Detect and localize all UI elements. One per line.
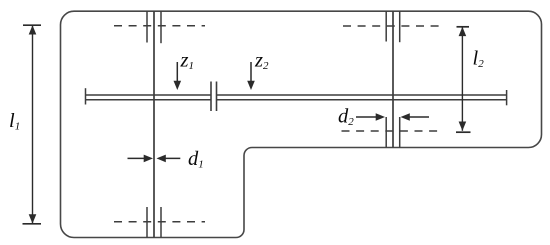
shaft 1 bottom bearing right line bbox=[160, 207, 162, 238]
shaft 2 bottom bearing right line bbox=[399, 117, 401, 148]
horizontal gear shaft upper line right segment bbox=[217, 94, 507, 96]
shaft 2 bottom dashed centreline bbox=[342, 130, 443, 132]
dimension l2 line bbox=[461, 27, 463, 131]
dimension l1 top arrowhead bbox=[29, 25, 37, 34]
shaft 2 centre line bbox=[392, 11, 394, 148]
shaft 1 top dashed centreline bbox=[114, 25, 205, 27]
coupling right plate bbox=[216, 82, 218, 112]
shaft 1 centre line bbox=[153, 11, 155, 238]
shaft 1 top bearing right line bbox=[160, 11, 162, 43]
dimension l2 top tick bbox=[457, 26, 470, 28]
horizontal gear shaft upper line left segment bbox=[86, 94, 212, 96]
d1 right arrow bbox=[164, 157, 181, 159]
dimension l1 bottom arrowhead bbox=[29, 214, 37, 223]
shaft 1 top bearing left line bbox=[146, 11, 148, 43]
z1 leader arrow bbox=[176, 62, 178, 83]
svg-text:z2: z2 bbox=[254, 50, 269, 73]
shaft 1 bottom bearing left line bbox=[146, 207, 148, 238]
svg-text:l1: l1 bbox=[9, 110, 20, 133]
shaft 2 top bearing left line bbox=[385, 11, 387, 42]
horizontal gear shaft lower line left segment bbox=[86, 99, 212, 101]
coupling left plate bbox=[210, 82, 212, 112]
dimension l1 top tick bbox=[23, 24, 41, 26]
shaft 2 bottom bearing left line bbox=[385, 117, 387, 148]
dimension l1 bottom tick bbox=[23, 223, 42, 225]
dimension l1 line bbox=[32, 25, 34, 223]
svg-text:l2: l2 bbox=[473, 48, 485, 71]
shaft 2 top dashed centreline bbox=[343, 25, 444, 27]
right shaft end cap bbox=[506, 90, 508, 105]
svg-text:d2: d2 bbox=[338, 105, 354, 128]
svg-text:z1: z1 bbox=[180, 50, 194, 73]
shaft 2 top bearing right line bbox=[399, 11, 401, 42]
dimension l2 top arrowhead bbox=[459, 27, 467, 36]
d2 left arrow bbox=[356, 116, 378, 118]
dimension l2 bottom tick bbox=[456, 131, 471, 133]
shaft 1 bottom dashed centreline bbox=[114, 221, 205, 223]
d1 left arrow bbox=[128, 157, 147, 159]
dimension l2 bottom arrowhead bbox=[459, 122, 467, 131]
d2 right arrow bbox=[408, 116, 430, 118]
left shaft end cap bbox=[85, 88, 87, 104]
horizontal gear shaft lower line right segment bbox=[217, 99, 507, 101]
z2 leader arrow bbox=[250, 62, 252, 83]
svg-text:d1: d1 bbox=[188, 148, 204, 171]
